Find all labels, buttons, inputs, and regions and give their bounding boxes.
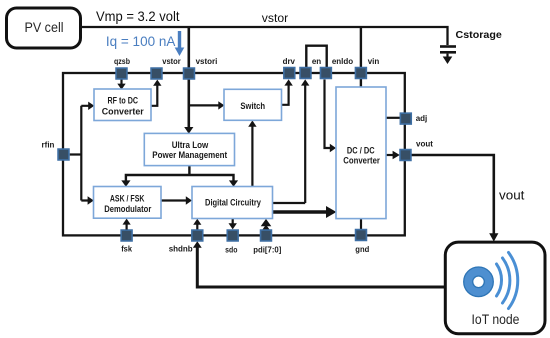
box Ultra Low Power Management <box>144 133 234 165</box>
svg-text:Converter: Converter <box>343 156 380 166</box>
svg-text:Digital Circuitry: Digital Circuitry <box>205 197 261 207</box>
svg-text:ASK / FSK: ASK / FSK <box>110 193 145 203</box>
wire Digital Circuitry to Switch <box>248 120 256 186</box>
svg-text:Iq = 100 nA: Iq = 100 nA <box>106 33 176 49</box>
svg-text:rfin: rfin <box>42 141 55 150</box>
pin shdnb <box>192 230 203 241</box>
pin vout <box>400 150 411 161</box>
wire en-enldo loop <box>306 46 326 68</box>
bus arrow Digital Circuitry to DC/DC converter <box>273 206 337 218</box>
svg-text:IoT node: IoT node <box>472 312 520 327</box>
svg-text:Power Management: Power Management <box>152 150 227 160</box>
arrow ULPM into ASK demodulator <box>121 180 130 186</box>
pin enldo <box>320 68 331 79</box>
PV cell <box>7 8 81 48</box>
box DC / DC Converter <box>336 87 386 219</box>
svg-text:Converter: Converter <box>102 107 144 117</box>
IoT node <box>445 242 545 334</box>
wire qzsb to RF converter <box>117 80 125 90</box>
wire enldo to DC/DC converter <box>325 80 337 153</box>
svg-text:enldo: enldo <box>332 57 353 66</box>
pin qzsb <box>116 68 127 79</box>
svg-text:shdnb: shdnb <box>169 245 193 254</box>
svg-text:Cstorage: Cstorage <box>456 29 502 41</box>
pin adj <box>400 113 411 124</box>
arrow rfin into ASK demodulator <box>88 196 94 204</box>
svg-text:Demodulator: Demodulator <box>104 204 151 214</box>
capacitor Cstorage <box>440 45 456 57</box>
arrow ULPM into Digital Circuitry <box>229 180 238 186</box>
pin fsk <box>121 230 132 241</box>
svg-text:qzsb: qzsb <box>114 57 130 66</box>
Iq current arrow <box>175 31 185 56</box>
ground arrow <box>443 57 453 65</box>
svg-text:pdi[7:0]: pdi[7:0] <box>253 245 281 254</box>
svg-text:Ultra Low: Ultra Low <box>172 140 209 150</box>
pin vin <box>355 68 366 79</box>
svg-text:adj: adj <box>416 114 428 123</box>
svg-text:vout: vout <box>416 140 433 149</box>
svg-text:en: en <box>312 57 321 66</box>
svg-text:vstor: vstor <box>162 57 181 66</box>
chip outline <box>63 73 405 235</box>
wire RF converter to vstor pin <box>151 80 162 106</box>
svg-text:sdo: sdo <box>225 245 237 254</box>
box ASK / FSK Demodulator <box>94 187 162 219</box>
svg-text:fsk: fsk <box>121 245 132 254</box>
svg-text:gnd: gnd <box>355 245 369 254</box>
svg-text:PV cell: PV cell <box>24 20 63 35</box>
bus arrow pdi into Digital Circuitry <box>261 219 272 230</box>
wire vstori drop to ULPM <box>184 27 193 134</box>
svg-text:Vmp = 3.2 volt: Vmp = 3.2 volt <box>96 8 180 24</box>
wire IoT node to shdnb <box>193 241 445 287</box>
wire ASK to Digital Circuitry <box>161 196 192 204</box>
svg-text:vout: vout <box>499 187 525 202</box>
box Digital Circuitry <box>192 187 273 219</box>
wire DC/DC to vout pin <box>386 151 400 159</box>
svg-text:vstori: vstori <box>196 57 218 66</box>
svg-text:DC / DC: DC / DC <box>347 146 375 156</box>
wire vout to IoT node <box>411 155 498 242</box>
box Switch <box>224 89 282 120</box>
svg-text:vstor: vstor <box>262 13 289 25</box>
wire DC/DC to gnd pin <box>360 219 362 229</box>
pin en <box>300 68 311 79</box>
box RF to DC Converter <box>94 89 151 121</box>
arrow rfin into RF converter <box>88 102 94 110</box>
svg-text:Switch: Switch <box>240 101 265 111</box>
pin vstor <box>151 68 162 79</box>
pin vstori <box>184 68 195 79</box>
wire vstor rail <box>81 27 448 45</box>
pin gnd <box>356 230 367 241</box>
pin rfin <box>58 149 69 160</box>
wire DC/DC to adj pin <box>386 117 400 119</box>
wire shdnb to Digital Circuitry <box>193 219 201 230</box>
pin pdi <box>261 230 272 241</box>
pin sdo <box>227 230 238 241</box>
wire vin drop <box>360 27 362 87</box>
wire rfin net <box>70 106 89 201</box>
svg-text:drv: drv <box>283 57 296 66</box>
wire ULPM distribution <box>126 166 234 181</box>
pin drv <box>284 68 295 79</box>
wire sdo output <box>229 219 237 230</box>
wire vstori branch to Switch <box>189 101 225 109</box>
svg-text:vin: vin <box>368 57 380 66</box>
wire Digital Circuitry to en pin <box>273 79 310 203</box>
svg-text:RF to DC: RF to DC <box>108 95 139 105</box>
wire fsk to ASK demodulator <box>123 219 131 230</box>
IoT antenna icon <box>464 253 518 309</box>
wire Switch to drv pin <box>282 79 293 104</box>
